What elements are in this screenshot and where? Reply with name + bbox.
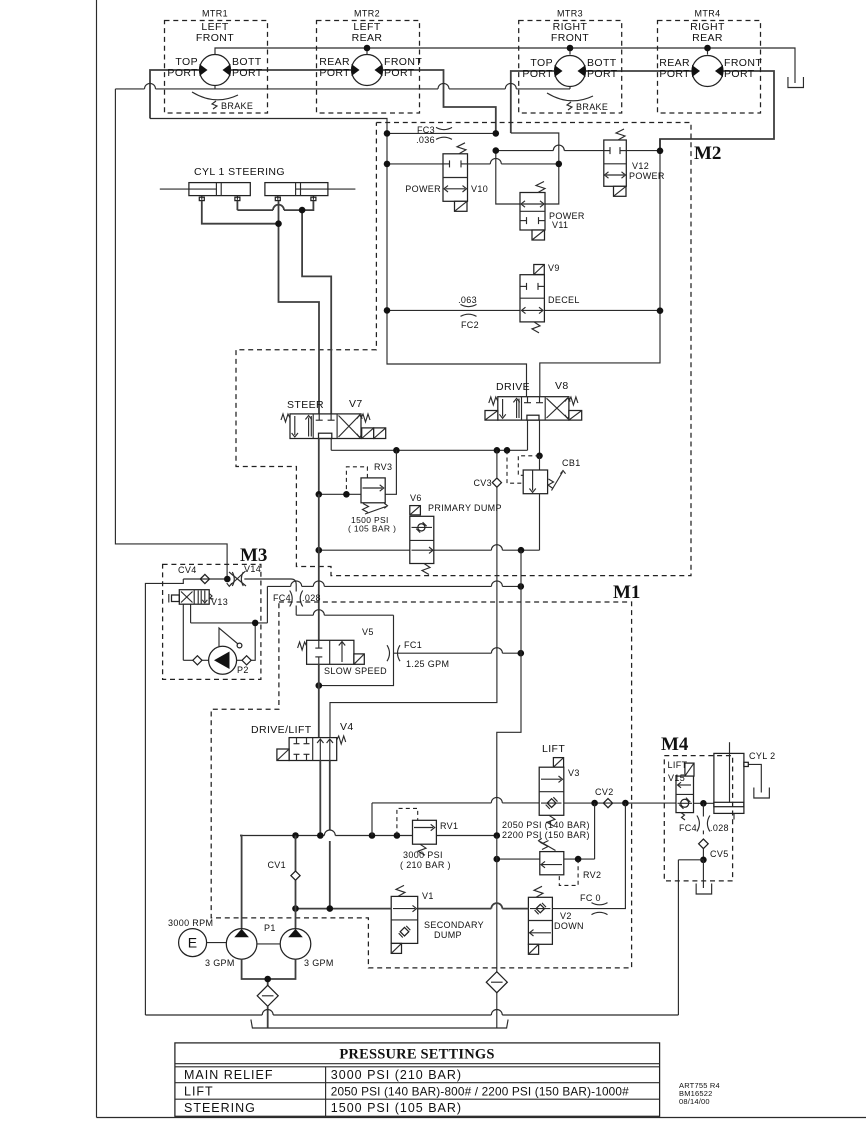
valve V10 power [443,154,468,202]
motor MTR4 [692,56,723,87]
svg-text:.063: .063 [458,295,477,305]
svg-text:V15: V15 [668,773,685,783]
svg-text:08/14/00: 08/14/00 [679,1097,710,1106]
check valve CV5 [699,839,709,849]
solenoid boxes V8 [485,411,498,421]
wire x521 vertical lift feed [520,550,522,586]
wire FC2 decel line y310 [387,309,520,311]
svg-text:P1: P1 [264,923,276,933]
svg-text:V3: V3 [568,768,580,778]
dashed box M2 [236,123,691,576]
svg-text:DECEL: DECEL [548,295,580,305]
wire V8 bottom ports [527,420,529,450]
needle valve V14 [232,572,234,586]
svg-text:FC3: FC3 [417,125,435,135]
svg-text:V6: V6 [410,493,422,503]
wire drain left vertical x115 [115,89,227,579]
wire V1-V2 line [418,908,492,910]
svg-text:LIFT: LIFT [184,1085,214,1099]
flow control FC2 orifice [461,304,477,306]
svg-text:STEERING: STEERING [184,1101,256,1115]
valve V6 primary dump [410,506,421,515]
svg-text:PORT: PORT [167,67,198,79]
cylinder CYL 2 [714,753,744,813]
svg-text:3 GPM: 3 GPM [304,958,334,968]
svg-text:MTR2: MTR2 [354,9,380,19]
valve V2 down [528,897,552,944]
svg-text:MTR4: MTR4 [695,9,721,19]
wire V7 to V8 drain line y450 [330,439,332,451]
wire pump suction [242,959,296,979]
svg-text:POWER: POWER [629,171,665,181]
wire motor-pump links [207,942,227,944]
wire V15 to CYL2 [694,802,714,804]
filter F1 [257,985,278,1006]
svg-text:V1: V1 [422,891,434,901]
svg-text:DUMP: DUMP [434,930,462,940]
svg-text:CV5: CV5 [710,849,729,859]
wire top line y48 motor tops to tank [215,48,795,83]
junction dots decel [384,307,391,314]
drawing frame border [96,0,98,1118]
svg-text:FRONT: FRONT [551,32,589,44]
motor MTR1 [200,55,231,86]
svg-text:PRIMARY DUMP: PRIMARY DUMP [428,503,502,513]
wire MTR3 top port line [511,71,555,133]
svg-text:1.25 GPM: 1.25 GPM [406,659,449,669]
svg-text:V11: V11 [552,220,568,230]
junction dots main line [292,832,299,839]
svg-text:SLOW SPEED: SLOW SPEED [324,666,387,676]
wire FC1 tap line [394,652,492,654]
solenoid boxes V7 [362,428,374,439]
svg-text:PORT: PORT [384,67,415,79]
svg-text:V5: V5 [362,627,374,637]
pilot dashed RV3 [346,467,367,495]
valve V4 drive/lift [289,738,337,761]
wire FC4 to line2 [295,606,297,616]
flow control FC4 orifice (M3) [290,591,293,607]
motor MTR3 [555,56,586,87]
svg-text:DOWN: DOWN [554,921,584,931]
svg-text:CV2: CV2 [595,787,614,797]
wire pump to V1 line [296,908,392,910]
junction dots pump line [292,905,299,912]
junction dots motor top line [364,45,371,52]
svg-text:CYL 2: CYL 2 [749,751,775,761]
svg-text:V9: V9 [548,263,560,273]
svg-text:V10: V10 [471,184,488,194]
flow control FC1 orifice [387,645,390,661]
wire hand pump output line y586 [266,586,268,623]
svg-text:RV1: RV1 [440,821,458,831]
svg-text:CV4: CV4 [178,565,197,575]
wire pump2 riser with CV1 [295,880,297,928]
svg-text:FC4: FC4 [679,823,697,833]
wire FC4 CV5 branch [702,803,704,816]
svg-text:BRAKE: BRAKE [221,101,253,111]
wire MTR2 front port down-right [383,70,496,133]
check valve CV4 [200,574,209,583]
valve V12 power [604,140,627,186]
svg-text:PORT: PORT [232,67,263,79]
svg-text:M3: M3 [240,545,267,566]
cylinder CYL1 right [296,188,356,190]
svg-text:CB1: CB1 [562,458,581,468]
svg-text:V13: V13 [211,597,228,607]
valve V5 slow speed [307,640,354,664]
wire RV3 right riser [385,450,396,494]
wire pump1 riser [240,836,242,929]
electric motor E [179,929,207,957]
check valve P2 right [237,659,242,661]
svg-text:BRAKE: BRAKE [576,102,608,112]
wire V10 line y164 [387,163,443,165]
svg-text:V7: V7 [349,398,363,410]
wire CB1 bottom to y550 line [539,494,541,551]
svg-text:FC1: FC1 [404,640,422,650]
relief valve RV2 [540,852,564,875]
brake symbol MTR3 [547,93,593,101]
wire RV2 right riser [564,858,595,860]
svg-text:STEER: STEER [287,399,324,411]
svg-text:3000 RPM: 3000 RPM [168,918,213,928]
svg-text:RV2: RV2 [583,870,601,880]
svg-text:V4: V4 [340,721,354,733]
svg-text:PORT: PORT [319,67,350,79]
svg-text:POWER: POWER [405,184,441,194]
wire main y550 line [319,549,410,551]
valve V7 steer [290,414,361,439]
svg-text:M4: M4 [661,734,689,755]
junction dots steering [299,207,306,214]
svg-text:( 210 BAR ): ( 210 BAR ) [400,860,451,870]
pump P1 right [280,929,311,960]
counterbalance valve CB1 [539,456,541,470]
wire CYL2 rod port to tank [744,762,748,766]
dashed box MTR1 [165,21,268,114]
wire V7 bottom to RV3 line [318,439,320,495]
wire V4 bottom risers [319,761,321,836]
dashed box MTR4 [658,21,761,114]
wire V12 line y150 [496,150,554,152]
valve V11 power [520,193,545,231]
wire CV5 branch down [677,860,679,1015]
wire x660 vertical V12 to V8 [540,139,660,397]
pilot dashed RV2 [559,859,578,885]
wire V11 feed from x496 [496,151,520,204]
svg-text:E: E [188,935,198,951]
dashed box M1 [211,602,631,968]
svg-text:MTR3: MTR3 [557,9,583,19]
svg-text:1500 PSI (105 BAR): 1500 PSI (105 BAR) [331,1101,462,1115]
dashed box MTR2 [317,21,420,114]
svg-text:RV3: RV3 [374,462,392,472]
wire CV5 to tank T3 [702,860,704,888]
svg-text:M2: M2 [694,143,721,164]
pilot dashed CB1 [507,450,523,483]
svg-text:3000 PSI (210 BAR): 3000 PSI (210 BAR) [331,1068,462,1082]
dashed box M4 [664,756,732,881]
wire CV5 to return [678,859,703,861]
wire MTR3 branch to V10 line [511,133,559,164]
svg-text:REAR: REAR [692,32,723,44]
svg-text:2050 PSI (140 BAR): 2050 PSI (140 BAR) [502,820,590,830]
svg-text:DRIVE/LIFT: DRIVE/LIFT [251,724,312,736]
valve V15 lift [685,763,694,776]
wire steering cap-side pair [202,201,279,224]
svg-text:V14: V14 [244,564,261,574]
junction dots drain y450 [393,447,400,454]
wire V11 right to V10 line [545,164,559,204]
tank line bottom [251,1020,508,1029]
valve V8 drive [498,397,569,420]
svg-text:PRESSURE SETTINGS: PRESSURE SETTINGS [339,1047,494,1063]
wire MTR1-MTR2 port line [231,69,352,71]
wire V5 to V4 vertical [318,664,320,737]
valve V3 lift [553,758,563,768]
svg-text:FRONT: FRONT [196,32,234,44]
dashed box M3 [163,564,261,679]
svg-text:FC2: FC2 [461,320,479,330]
svg-text:3 GPM: 3 GPM [205,958,235,968]
svg-text:MAIN RELIEF: MAIN RELIEF [184,1068,274,1082]
svg-text:V8: V8 [555,380,569,392]
svg-text:.036: .036 [416,135,435,145]
wire drain entry to CV4 line [183,578,227,580]
wire x150 to x387 feed line [150,119,527,397]
svg-text:M1: M1 [613,582,640,603]
svg-text:( 105 BAR ): ( 105 BAR ) [348,524,396,534]
valve V1 secondary dump [391,896,418,943]
wire RV2 left line [497,858,540,860]
svg-text:DRIVE: DRIVE [496,381,530,393]
svg-text:CV3: CV3 [473,478,492,488]
svg-text:REAR: REAR [352,32,383,44]
svg-text:V2: V2 [560,911,572,921]
svg-text:PORT: PORT [522,68,553,80]
svg-text:2200 PSI (150 BAR): 2200 PSI (150 BAR) [502,830,590,840]
hand pump lever [219,628,238,647]
tank T1 top right [788,77,804,88]
check valve CV2 [603,799,612,808]
wire MTR4 front port to M2 [660,71,774,151]
table pressure settings [175,1043,660,1116]
svg-text:CYL 1 STEERING: CYL 1 STEERING [194,166,285,178]
svg-text:3000 PSI: 3000 PSI [403,850,443,860]
svg-text:.028: .028 [710,823,729,833]
svg-text:PORT: PORT [587,68,618,80]
wire V3 feed from main line [371,803,373,836]
wire brake drain line y89 [214,86,216,89]
check valve CV1 [291,871,300,880]
relief valve RV3 [361,478,385,503]
svg-text:PORT: PORT [724,68,755,80]
junction dots lift line [591,800,598,807]
wire MTR3-MTR4 port line [586,70,693,72]
junction dots RV3 line [316,491,323,498]
wire V13 to hand pump circuit [182,604,184,660]
check valve CV3 [492,478,501,487]
flow control FC4 orifice (M4) [697,816,700,832]
relief valve RV1 [413,820,437,844]
wire x497 vertical V8 drain down [496,450,498,477]
flow control FC3 orifice [436,127,452,129]
tank T3 below CV5 [696,884,712,895]
cylinder CYL1 left [160,188,217,190]
svg-text:MTR1: MTR1 [202,9,228,19]
junction dots M2 upper [384,130,391,137]
wire x496 vertical down to filter [496,836,498,860]
wire x318 vertical RV3 to V5 [318,494,320,550]
svg-text:PORT: PORT [659,68,690,80]
valve V9 decel [520,275,544,322]
brake symbol MTR1 [192,92,238,100]
dashed box MTR3 [519,21,622,114]
svg-text:LIFT: LIFT [542,743,565,755]
wire FC3 line y133 [387,132,496,134]
svg-text:P2: P2 [237,665,249,675]
junction dots y550 [316,547,323,554]
valve V13 [179,590,209,605]
wire CV2 branch down to V2 [552,803,625,909]
svg-text:V12: V12 [632,161,649,171]
wire V3 to CV2 to M4 [564,802,676,804]
svg-text:SECONDARY: SECONDARY [424,920,484,930]
junction dot CV5 [700,857,707,864]
pump P1 left [226,929,257,960]
motor MTR2 [352,55,383,86]
wire V14 line to FC4 riser [244,578,291,580]
wire steering rod-side pair [236,201,238,210]
flow control FC 0 orifice [592,903,608,905]
hand pump P2 [183,659,193,661]
junction dots M3 [224,576,231,583]
svg-text:FC 0: FC 0 [580,893,601,903]
junction dot V5 bypass [316,682,323,689]
wire return line y1015 [145,1014,262,1016]
filter F2 [486,972,507,993]
wire MTR1 top port to down-left [150,70,200,119]
tank T2 cyl2 [754,788,770,799]
svg-text:CV1: CV1 [267,860,286,870]
wire main pressure line y835 [240,835,324,837]
svg-text:2050 PSI (140 BAR)-800# / 2200: 2050 PSI (140 BAR)-800# / 2200 PSI (150 … [331,1085,629,1099]
